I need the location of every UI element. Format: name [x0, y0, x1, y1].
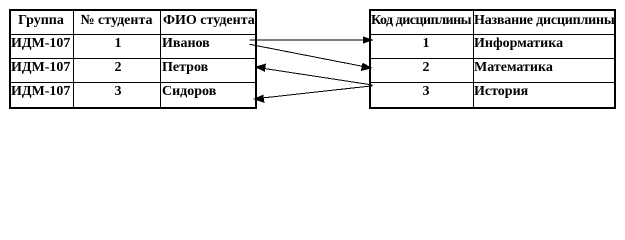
svg-text:Код дисциплины: Код дисциплины: [371, 13, 472, 28]
svg-text:2: 2: [423, 60, 430, 75]
svg-text:3: 3: [115, 84, 122, 99]
svg-text:ИДМ-107: ИДМ-107: [11, 60, 70, 75]
svg-text:Сидоров: Сидоров: [162, 84, 217, 99]
svg-text:2: 2: [115, 60, 122, 75]
svg-text:Информатика: Информатика: [474, 36, 563, 51]
svg-text:История: История: [474, 84, 529, 99]
svg-text:Иванов: Иванов: [162, 36, 210, 51]
svg-text:ИДМ-107: ИДМ-107: [11, 36, 70, 51]
svg-text:Петров: Петров: [162, 60, 209, 75]
svg-text:Группа: Группа: [18, 13, 64, 28]
svg-text:1: 1: [423, 36, 430, 51]
svg-text:ИДМ-107: ИДМ-107: [11, 84, 70, 99]
svg-text:3: 3: [423, 84, 430, 99]
svg-text:Название дисциплины: Название дисциплины: [474, 13, 615, 28]
svg-text:Математика: Математика: [474, 60, 553, 75]
svg-text:№ студента: № студента: [80, 13, 152, 28]
svg-text:ФИО студента: ФИО студента: [163, 13, 255, 28]
svg-text:1: 1: [115, 36, 122, 51]
